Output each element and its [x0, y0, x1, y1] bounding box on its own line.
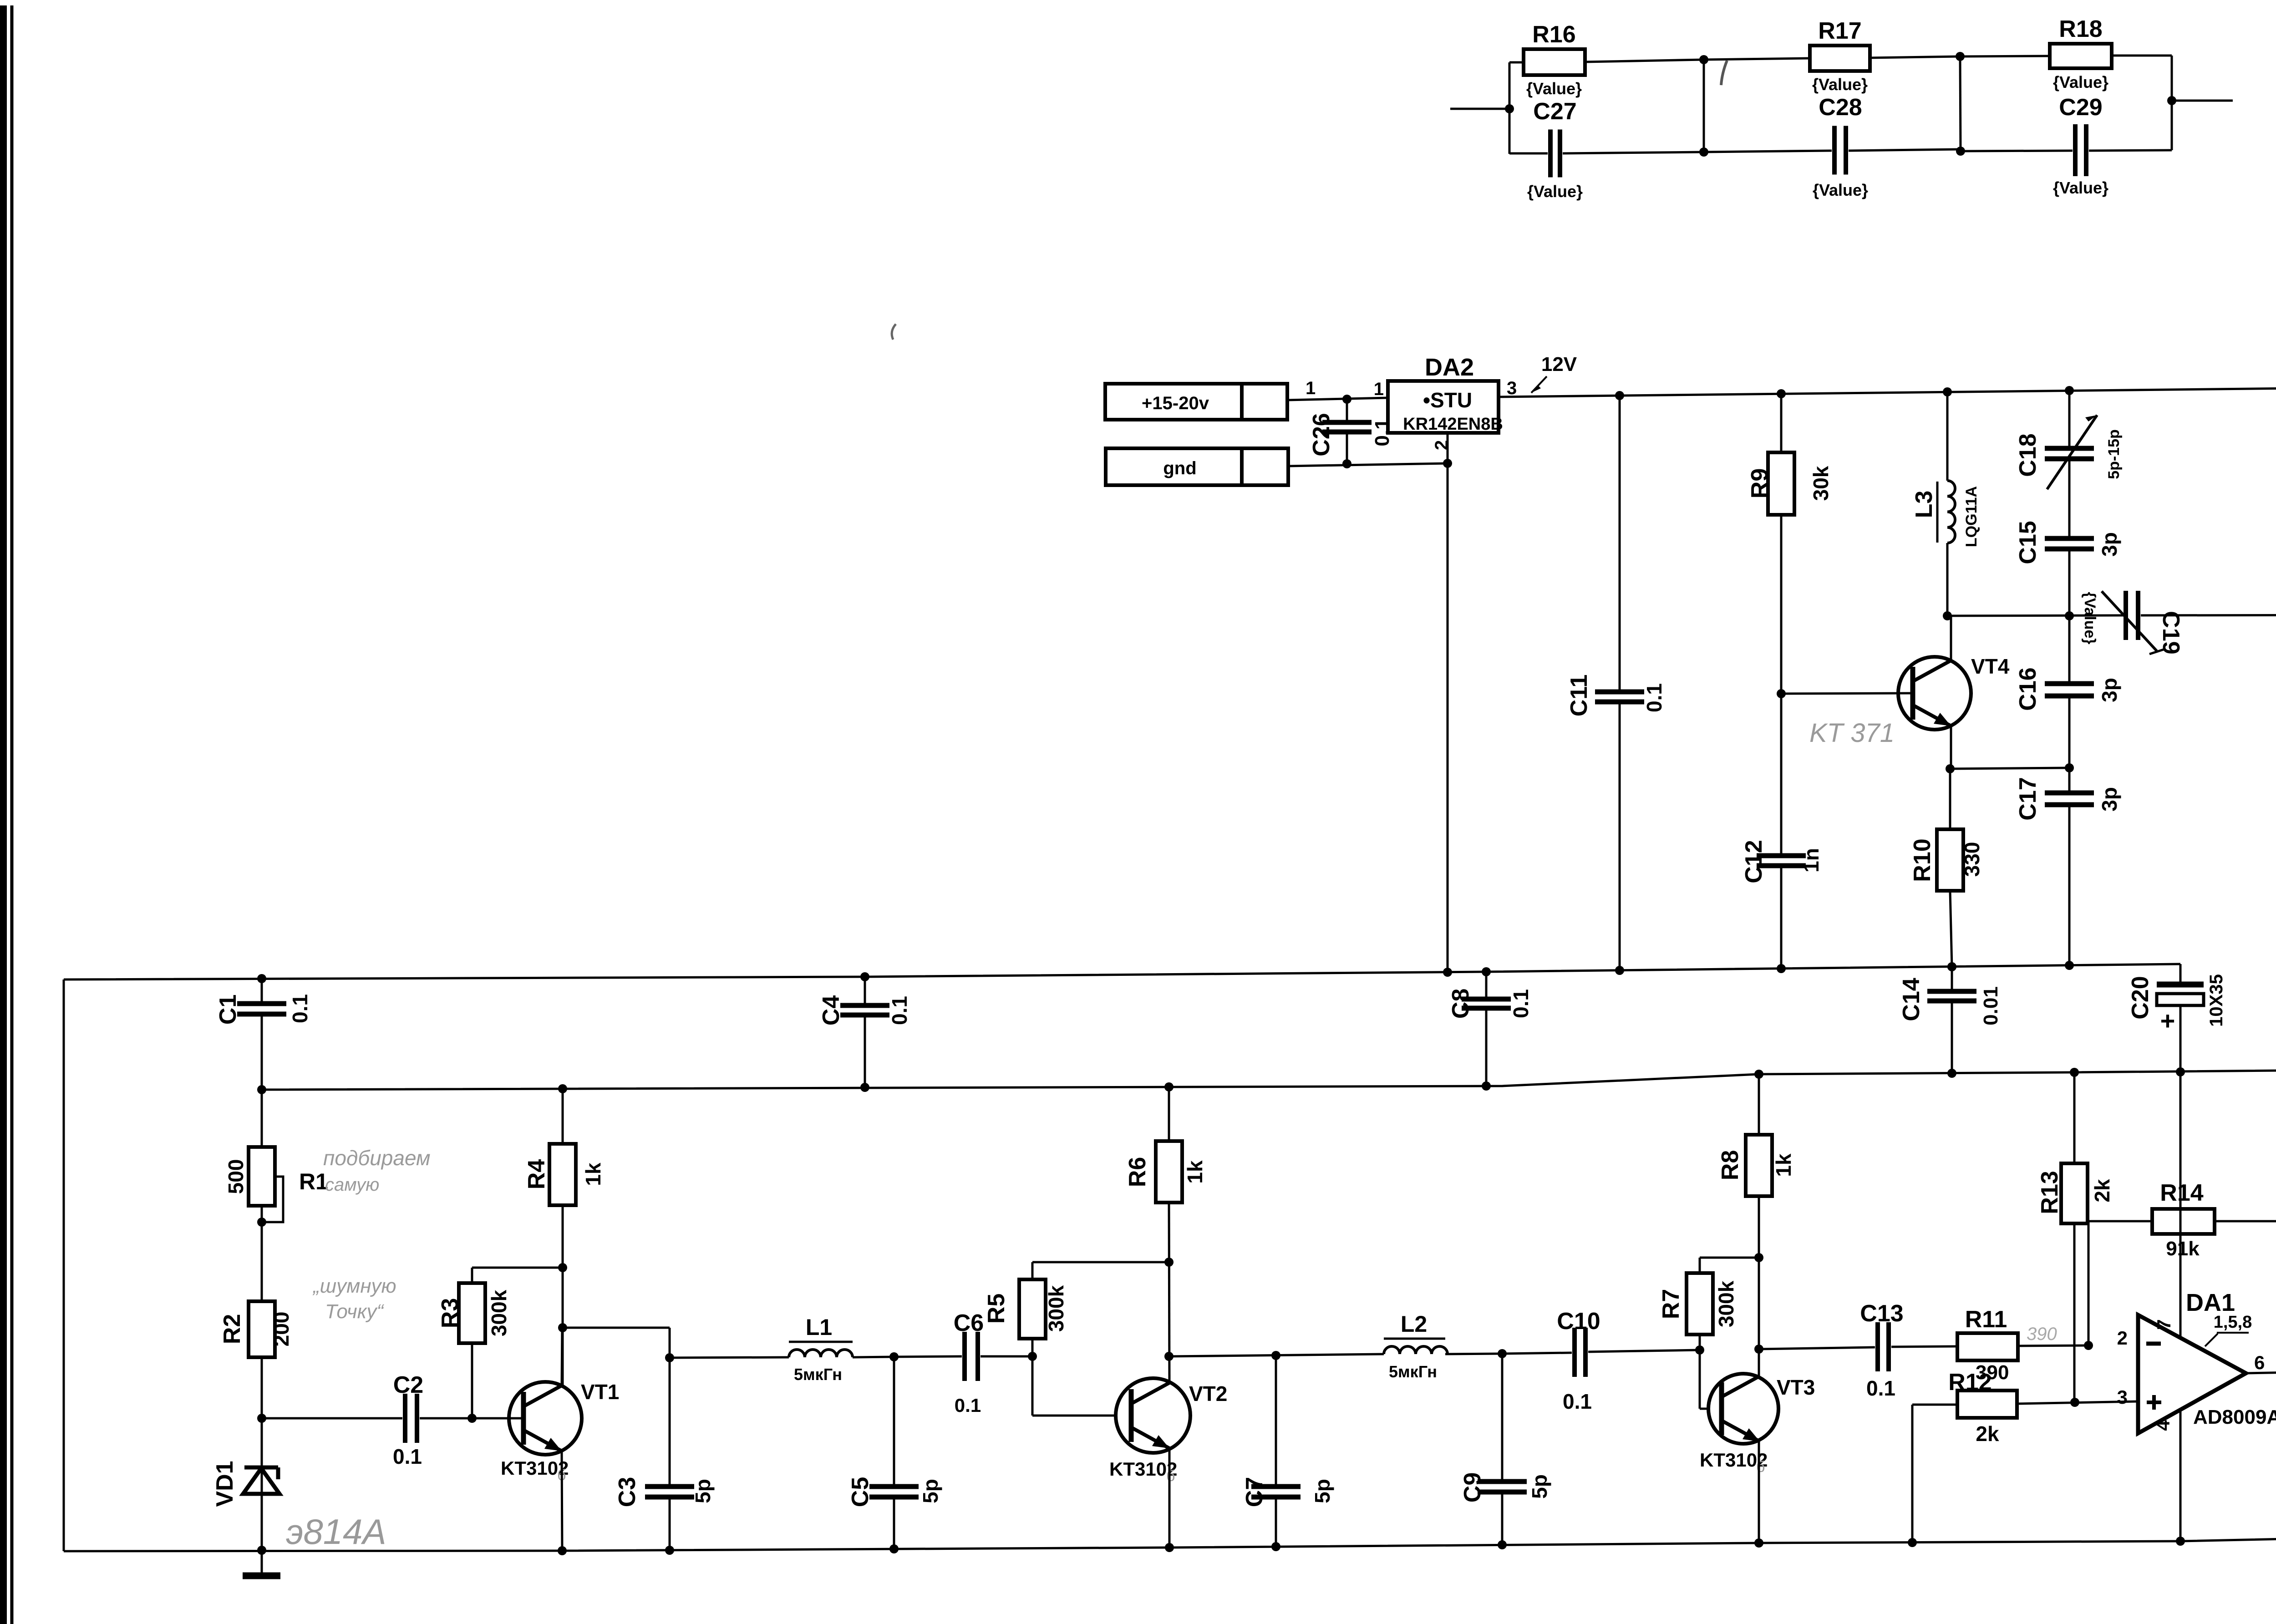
svg-text:VD1: VD1 [212, 1461, 238, 1507]
wire VT3 emitter [1754, 1440, 1763, 1548]
svg-text:R7: R7 [1658, 1289, 1684, 1319]
pin 2 of DA2 [1432, 440, 1452, 450]
wire to L1 [670, 1357, 789, 1358]
svg-text:0.1: 0.1 [1563, 1390, 1592, 1413]
wire +15-20v to DA2 [1287, 398, 1388, 400]
label DA1 pins 158 [2205, 1313, 2252, 1346]
capacitor C10 [1502, 1308, 1700, 1413]
handwritten note samuyu [325, 1175, 379, 1195]
node R2 VD1 C2 [257, 1414, 266, 1423]
svg-text:0.1: 0.1 [288, 994, 312, 1023]
node VT1 collector out [558, 1323, 674, 1362]
label DA1 part number [2193, 1406, 2276, 1428]
pin 3 of DA1 [2117, 1386, 2128, 1408]
scan border bar left edge [0, 5, 12, 1624]
svg-text:0.1: 0.1 [1642, 683, 1666, 712]
svg-text:LQG11A: LQG11A [1963, 486, 1980, 547]
capacitor C19 variable [2081, 591, 2276, 655]
svg-text:{Value}: {Value} [1527, 182, 1583, 201]
svg-text:C9: C9 [1459, 1472, 1486, 1502]
wire ground rail top [64, 964, 2180, 979]
wire collector row oscillator [1943, 611, 2123, 620]
wire VT3 collector [1758, 1196, 1760, 1377]
wire ladder right bracket [2171, 56, 2173, 150]
capacitor C4 [818, 972, 911, 1092]
svg-text:30k: 30k [1809, 466, 1833, 501]
pin 2 of DA1 [2117, 1327, 2128, 1349]
svg-text:VT2: VT2 [1189, 1382, 1227, 1406]
capacitor C14 [1898, 962, 2002, 1078]
svg-text:300k: 300k [1044, 1285, 1068, 1332]
resistor R17 [1704, 18, 1960, 94]
svg-text:C7: C7 [1241, 1477, 1268, 1507]
svg-text:C3: C3 [614, 1477, 640, 1507]
svg-text:C17: C17 [2015, 777, 2041, 820]
transistor VT3 [1708, 1374, 1815, 1444]
svg-text:R13: R13 [2037, 1171, 2063, 1214]
inductor L2 [1384, 1311, 1502, 1381]
svg-text:э814А: э814А [286, 1512, 386, 1552]
svg-text:R16: R16 [1532, 21, 1575, 48]
node VT3 collector row [1754, 1345, 1875, 1354]
svg-text:C11: C11 [1566, 675, 1592, 717]
wire VT3 base drop [1700, 1350, 1708, 1409]
svg-text:1k: 1k [1772, 1153, 1795, 1177]
svg-text:C18: C18 [2015, 433, 2041, 477]
svg-text:R9: R9 [1747, 468, 1773, 498]
svg-text:3: 3 [2117, 1386, 2128, 1408]
svg-text:{Value}: {Value} [2053, 178, 2108, 197]
op-amp DA1 [2138, 1315, 2246, 1433]
wire ladder output stub [2167, 96, 2233, 105]
label VT3 type [1700, 1449, 1768, 1476]
svg-text:3: 3 [1507, 378, 1517, 398]
svg-text:3p: 3p [2098, 787, 2121, 812]
svg-text:3p: 3p [2098, 532, 2121, 557]
svg-text:300k: 300k [487, 1289, 511, 1336]
svg-text:91k: 91k [2166, 1238, 2200, 1260]
svg-text:10X35: 10X35 [2206, 974, 2226, 1027]
svg-text:0.01: 0.01 [1980, 986, 2002, 1025]
svg-text:DA1: DA1 [2186, 1289, 2235, 1316]
wire VT1 collector [562, 1328, 562, 1385]
wire VT4 emitter [1950, 726, 1952, 769]
svg-text:5p: 5p [1311, 1479, 1334, 1503]
wire gnd to DA2 pin2 [1288, 463, 1448, 466]
wire VT4 base [1781, 693, 1913, 694]
svg-text:5p: 5p [1528, 1474, 1551, 1499]
capacitor C7 [1241, 1351, 1334, 1551]
svg-text:C27: C27 [1533, 98, 1576, 125]
wire ladder left bracket [1509, 62, 1511, 154]
svg-text:R18: R18 [2059, 16, 2102, 42]
svg-text:330: 330 [1960, 842, 1984, 877]
svg-text:б: б [1756, 1458, 1765, 1476]
svg-text:L3: L3 [1911, 491, 1937, 518]
resistor R5 [983, 1258, 1174, 1361]
svg-text:+: + [2160, 1006, 2175, 1035]
svg-text:5мкГн: 5мкГн [794, 1365, 842, 1384]
resistor R11 [1957, 1306, 2088, 1360]
node ladder junction A [1699, 55, 1708, 157]
svg-text:C14: C14 [1898, 978, 1925, 1021]
svg-text:5мкГн: 5мкГн [1389, 1362, 1437, 1381]
capacitor C9 [1459, 1349, 1551, 1549]
svg-text:1k: 1k [581, 1162, 605, 1186]
capacitor C3 [614, 1358, 715, 1555]
svg-text:1n: 1n [1799, 848, 1823, 873]
pin 6 of DA1 [2254, 1352, 2265, 1373]
svg-text:3p: 3p [2098, 678, 2121, 702]
resistor R9 [1747, 394, 1833, 694]
svg-text:C20: C20 [2127, 976, 2154, 1019]
resistor R16 [1509, 21, 1704, 98]
svg-text:C26: C26 [1308, 413, 1335, 456]
resistor R10 [1909, 769, 1984, 971]
label R11 value printed [1976, 1361, 2009, 1384]
svg-text:R17: R17 [1818, 18, 1861, 44]
svg-text:DA2: DA2 [1425, 354, 1474, 381]
svg-text:6: 6 [2254, 1352, 2265, 1373]
svg-text:1: 1 [1374, 379, 1384, 399]
svg-text:{Value}: {Value} [1812, 75, 1868, 94]
ground symbol [243, 1550, 280, 1576]
pin 1 of connector [1306, 378, 1316, 398]
resistor R4 [523, 1084, 605, 1385]
wire VT2 emitter [1165, 1448, 1174, 1552]
capacitor C2 [262, 1372, 472, 1468]
svg-text:C15: C15 [2015, 521, 2041, 564]
capacitor C29 [1961, 94, 2172, 197]
svg-text:„шумную: „шумную [312, 1275, 396, 1297]
svg-text:500: 500 [224, 1159, 248, 1194]
svg-text:R5: R5 [983, 1294, 1010, 1324]
label R11 value handwritten [2027, 1324, 2057, 1344]
wire DA2 pin2 ground drop [1443, 433, 1452, 977]
wire oscillator 12V rail [1499, 385, 2276, 400]
capacitor C18 variable [2015, 391, 2123, 538]
label KT371 handwritten [1809, 718, 1895, 748]
svg-text:•STU: •STU [1423, 388, 1472, 412]
svg-text:390: 390 [2027, 1324, 2057, 1344]
svg-text:R11: R11 [1965, 1306, 2007, 1333]
wire VT2 base drop [1032, 1356, 1116, 1416]
zener diode VD1 [212, 1418, 279, 1555]
svg-text:Точку“: Точку“ [325, 1300, 384, 1323]
capacitor C6 [894, 1310, 1032, 1416]
svg-text:C1: C1 [215, 995, 241, 1025]
svg-text:VT1: VT1 [581, 1380, 619, 1404]
svg-text:1,5,8: 1,5,8 [2214, 1313, 2252, 1332]
potentiometer R1 [224, 1090, 328, 1301]
svg-text:5p: 5p [919, 1479, 942, 1503]
svg-text:{Value}: {Value} [1813, 181, 1868, 199]
svg-text:2: 2 [2117, 1327, 2128, 1349]
svg-text:C16: C16 [2015, 667, 2041, 710]
handwritten note podbiraem [323, 1146, 431, 1170]
svg-text:{Value}: {Value} [2053, 73, 2108, 91]
connector +15-20v [1105, 384, 1287, 420]
svg-text:200: 200 [269, 1312, 293, 1347]
wire VT1 emitter [558, 1451, 567, 1555]
capacitor C5 [847, 1352, 942, 1553]
wire DA1 output [2246, 1366, 2276, 1375]
capacitor C13 [1860, 1300, 1957, 1400]
svg-text:{Value}: {Value} [2081, 592, 2098, 644]
svg-text:L2: L2 [1401, 1311, 1427, 1337]
svg-text:R4: R4 [523, 1159, 550, 1190]
capacitor C11 [1566, 396, 1666, 975]
voltage regulator DA2 [1388, 354, 1503, 434]
svg-text:300k: 300k [1714, 1280, 1738, 1327]
svg-text:R1: R1 [299, 1169, 328, 1194]
resistor R3 [437, 1263, 567, 1423]
svg-text:C12: C12 [1741, 840, 1767, 883]
wire VT2 collector [1169, 1203, 1169, 1383]
svg-text:KT 371: KT 371 [1809, 718, 1895, 748]
svg-text:C28: C28 [1819, 94, 1862, 121]
inductor L1 [789, 1314, 894, 1384]
svg-text:+15-20v: +15-20v [1142, 393, 1209, 413]
svg-text:7: 7 [2153, 1319, 2174, 1330]
resistor R7 [1658, 1253, 1763, 1355]
capacitor C17 [2015, 768, 2121, 970]
capacitor C15 [2015, 521, 2121, 620]
label VT2 type [1109, 1458, 1177, 1485]
capacitor C12 [1741, 689, 1823, 973]
label 12V with arrow [1531, 353, 1577, 393]
transistor VT1 [509, 1380, 619, 1455]
inductor L3 [1911, 392, 1980, 616]
svg-text:R3: R3 [437, 1298, 463, 1328]
svg-text:5p: 5p [691, 1479, 715, 1503]
connector gnd [1106, 448, 1288, 485]
svg-text:2k: 2k [1976, 1422, 1999, 1446]
svg-text:R10: R10 [1909, 838, 1936, 882]
resistor R18 [1961, 16, 2172, 91]
wire left border [63, 979, 65, 1551]
svg-text:C5: C5 [847, 1477, 874, 1507]
svg-text:C4: C4 [818, 995, 844, 1026]
pencil mark small arc [892, 324, 896, 340]
resistor R8 [1717, 1070, 1795, 1196]
wire bottom ground rail [64, 1529, 2276, 1551]
resistor R6 [1124, 1082, 1207, 1203]
resistor R2 [219, 1301, 293, 1418]
pin 4 of DA1 [2152, 1410, 2185, 1546]
svg-text:1: 1 [1306, 378, 1316, 398]
capacitor C26 [1308, 395, 1393, 468]
svg-text:0.1: 0.1 [1509, 989, 1533, 1018]
label VT1 type [501, 1457, 569, 1484]
pencil mark near ladder [1721, 61, 1727, 85]
wire +12V stage rail [262, 1068, 2276, 1090]
svg-text:самую: самую [325, 1175, 379, 1195]
svg-text:{Value}: {Value} [1526, 79, 1582, 98]
svg-text:5p-15p: 5p-15p [2105, 429, 2123, 479]
capacitor C1 [215, 974, 312, 1094]
svg-text:C6: C6 [954, 1310, 984, 1336]
wire ladder input stub [1450, 104, 1514, 113]
pin 7 of DA1 [2153, 1072, 2180, 1338]
svg-text:R14: R14 [2160, 1180, 2203, 1206]
label zener type handwritten [286, 1512, 386, 1552]
svg-text:R2: R2 [219, 1314, 245, 1344]
svg-text:R8: R8 [1717, 1150, 1743, 1180]
svg-text:б: б [1166, 1467, 1175, 1485]
label DA1 [2186, 1289, 2235, 1316]
capacitor C27 [1509, 98, 1704, 201]
svg-text:AD8009AR: AD8009AR [2193, 1406, 2276, 1428]
svg-text:0.1: 0.1 [955, 1395, 981, 1416]
svg-text:C29: C29 [2059, 94, 2102, 121]
svg-text:12V: 12V [1541, 353, 1577, 376]
svg-text:1k: 1k [1183, 1160, 1207, 1184]
svg-text:0.1: 0.1 [393, 1445, 422, 1468]
wire VT1 base [472, 1417, 523, 1420]
svg-text:VT3: VT3 [1777, 1375, 1815, 1399]
node VT2 collector row [1164, 1352, 1384, 1361]
svg-text:C8: C8 [1448, 989, 1474, 1019]
resistor R12 [1908, 1369, 2138, 1547]
svg-text:C2: C2 [393, 1372, 423, 1398]
svg-text:R6: R6 [1124, 1157, 1151, 1187]
capacitor C8 [1448, 967, 1533, 1091]
svg-text:C19: C19 [2158, 611, 2184, 654]
svg-text:0.1: 0.1 [888, 996, 911, 1025]
capacitor C28 [1704, 94, 1960, 199]
svg-text:C13: C13 [1860, 1300, 1903, 1327]
transistor VT2 [1116, 1378, 1227, 1453]
svg-text:2k: 2k [2090, 1179, 2114, 1203]
capacitor C16 [2015, 616, 2121, 768]
node ladder junction B [1956, 52, 1965, 156]
svg-text:L1: L1 [806, 1314, 832, 1340]
pin 3 of DA2 [1507, 378, 1517, 398]
svg-text:C10: C10 [1557, 1308, 1600, 1335]
svg-text:gnd: gnd [1163, 458, 1196, 478]
wire VT4 collector [1950, 616, 1952, 660]
svg-text:подбираем: подбираем [323, 1146, 431, 1170]
handwritten note tochku [325, 1300, 384, 1323]
pin 1 of DA2 [1374, 379, 1384, 399]
transistor VT4 [1898, 655, 2010, 730]
capacitor C20 electrolytic [2127, 964, 2226, 1076]
resistor R14 [2084, 1180, 2276, 1371]
handwritten note shumnuyu [312, 1275, 396, 1297]
svg-text:4: 4 [2152, 1420, 2174, 1431]
svg-text:VT4: VT4 [1971, 655, 2010, 678]
svg-text:0.1: 0.1 [1866, 1376, 1895, 1400]
resistor R13 [2037, 1068, 2114, 1407]
svg-text:KR142EN8B: KR142EN8B [1403, 415, 1503, 434]
wire VT4 emitter row [1946, 763, 2074, 773]
